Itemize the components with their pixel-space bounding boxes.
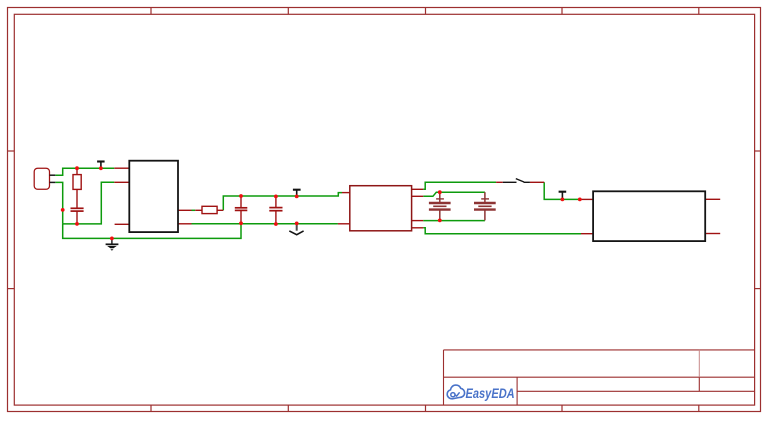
svg-text:EasyEDA: EasyEDA [466,386,515,402]
